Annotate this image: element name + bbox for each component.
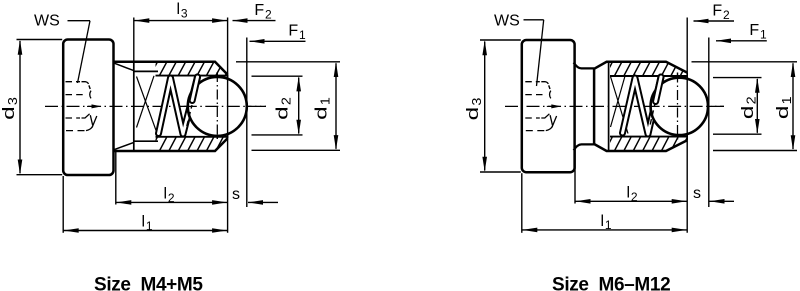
extension line F2/s/end face (left figure) — [227, 18, 229, 233]
svg-text:l3: l3 — [176, 1, 187, 20]
spring end coils X (left figure) — [137, 76, 158, 135]
caption Size M4+M5 — [94, 275, 203, 291]
ball (right figure) — [651, 78, 708, 135]
centerline horizontal (right figure) — [505, 105, 724, 107]
dimension d3 (left figure) — [0, 40, 62, 175]
dimension d2 (left figure) — [252, 76, 303, 135]
section hatching bottom band (right figure) — [605, 137, 688, 151]
spring end coils X (right figure) — [611, 76, 629, 134]
caption Size M6-M12 — [552, 275, 670, 291]
force F2 (right figure) — [694, 3, 735, 24]
extension line F2/end face (right figure) — [686, 18, 688, 233]
counterbore gap line bottom (left figure) — [134, 140, 158, 142]
svg-text:F1: F1 — [288, 23, 306, 42]
spring wire last leg visible over ball (left figure) — [192, 77, 197, 101]
dimension d1 (right figure) — [692, 62, 798, 151]
svg-text:2: 2 — [744, 96, 759, 104]
spring wire last leg visible over ball (right figure) — [656, 77, 661, 102]
label WS + leader (left figure) — [34, 13, 90, 84]
svg-text:2: 2 — [279, 97, 294, 105]
neck profile bottom (right figure) — [574, 144, 595, 150]
svg-text:WS: WS — [34, 13, 60, 30]
dimension s (left figure) — [232, 186, 278, 205]
dimension d3 (right figure) — [464, 40, 521, 172]
svg-text:1: 1 — [779, 96, 794, 104]
centerline vertical through ball (left figure) — [216, 72, 218, 142]
svg-text:d: d — [0, 106, 18, 120]
svg-text:F2: F2 — [254, 2, 272, 21]
svg-text:3: 3 — [469, 98, 484, 106]
thread chamfer cone lines (left figure) — [114, 63, 134, 149]
centerline vertical through ball (right figure) — [677, 73, 679, 142]
svg-text:d: d — [312, 106, 330, 120]
force F1 (left figure) — [250, 23, 306, 44]
ball (left figure) — [188, 77, 247, 136]
dimension s (right figure) — [693, 185, 734, 204]
neck profile top (right figure) — [574, 63, 595, 69]
hex socket hidden lines (left figure) — [66, 82, 102, 131]
spring wire (right figure) — [623, 77, 662, 134]
dimension l3 (left figure) — [134, 1, 228, 62]
label WS + leader (right figure) — [494, 13, 544, 87]
svg-text:1: 1 — [317, 97, 332, 105]
hex socket hidden lines (right figure) — [525, 82, 561, 131]
extension line F1/ball tip (right figure) — [708, 38, 710, 208]
counterbore gap line top (left figure) — [134, 70, 158, 72]
dimension d1 (left figure) — [236, 62, 340, 151]
svg-text:s: s — [693, 185, 701, 202]
svg-text:l2: l2 — [163, 186, 174, 205]
bore line top (left figure) — [156, 75, 228, 77]
ball centerline horizontal redraw (left figure) — [184, 105, 266, 107]
head cylinder (left figure) — [63, 40, 113, 176]
svg-text:l1: l1 — [600, 213, 611, 232]
section hatching top band (left figure) — [150, 62, 233, 76]
bore line top (right figure) — [610, 75, 687, 77]
force F2 (left figure) — [233, 2, 276, 23]
svg-text:Size M4+M5: Size M4+M5 — [94, 275, 203, 291]
svg-text:Size M6–M12: Size M6–M12 — [552, 275, 670, 291]
bore line bottom (right figure) — [610, 136, 687, 138]
head cylinder (right figure) — [522, 40, 575, 172]
threaded body outline (left figure) — [114, 62, 228, 151]
ball centerline horizontal redraw (right figure) — [647, 105, 724, 107]
ball centerline vertical redraw (left figure) — [216, 72, 218, 142]
spring hidden line behind ball (right figure) — [650, 104, 655, 125]
svg-text:d: d — [774, 106, 792, 120]
dimension l1 (left figure) — [63, 176, 227, 233]
force F1 (right figure) — [716, 22, 767, 43]
ball centerline vertical redraw (right figure) — [677, 73, 679, 142]
dimension l1 (right figure) — [522, 173, 687, 233]
centerline horizontal (left figure) — [45, 105, 266, 107]
thread relief vertical line (left figure) — [133, 62, 135, 151]
dimension l2 (left figure) — [116, 152, 228, 205]
dimension d2 (right figure) — [713, 78, 762, 135]
bore line bottom (left figure) — [156, 136, 228, 138]
threaded body outline (right figure) — [594, 62, 687, 151]
thread relief vertical line (right figure) — [608, 62, 610, 151]
svg-text:d: d — [274, 106, 292, 120]
spring hidden line behind ball (left figure) — [187, 105, 192, 126]
extension line F1/ball tip (left figure) — [246, 38, 248, 208]
dimension l2 (right figure) — [575, 145, 687, 203]
spring wire (left figure) — [159, 77, 198, 134]
svg-text:F2: F2 — [712, 3, 730, 22]
svg-text:WS: WS — [494, 13, 520, 30]
svg-text:l1: l1 — [141, 214, 152, 233]
svg-text:3: 3 — [5, 97, 20, 105]
svg-text:F1: F1 — [749, 22, 767, 41]
svg-text:d: d — [464, 107, 482, 121]
section hatching top band (right figure) — [605, 62, 688, 76]
svg-text:l2: l2 — [626, 185, 637, 204]
svg-text:s: s — [232, 186, 240, 203]
svg-text:d: d — [739, 106, 757, 120]
section hatching bottom band (left figure) — [150, 137, 233, 151]
